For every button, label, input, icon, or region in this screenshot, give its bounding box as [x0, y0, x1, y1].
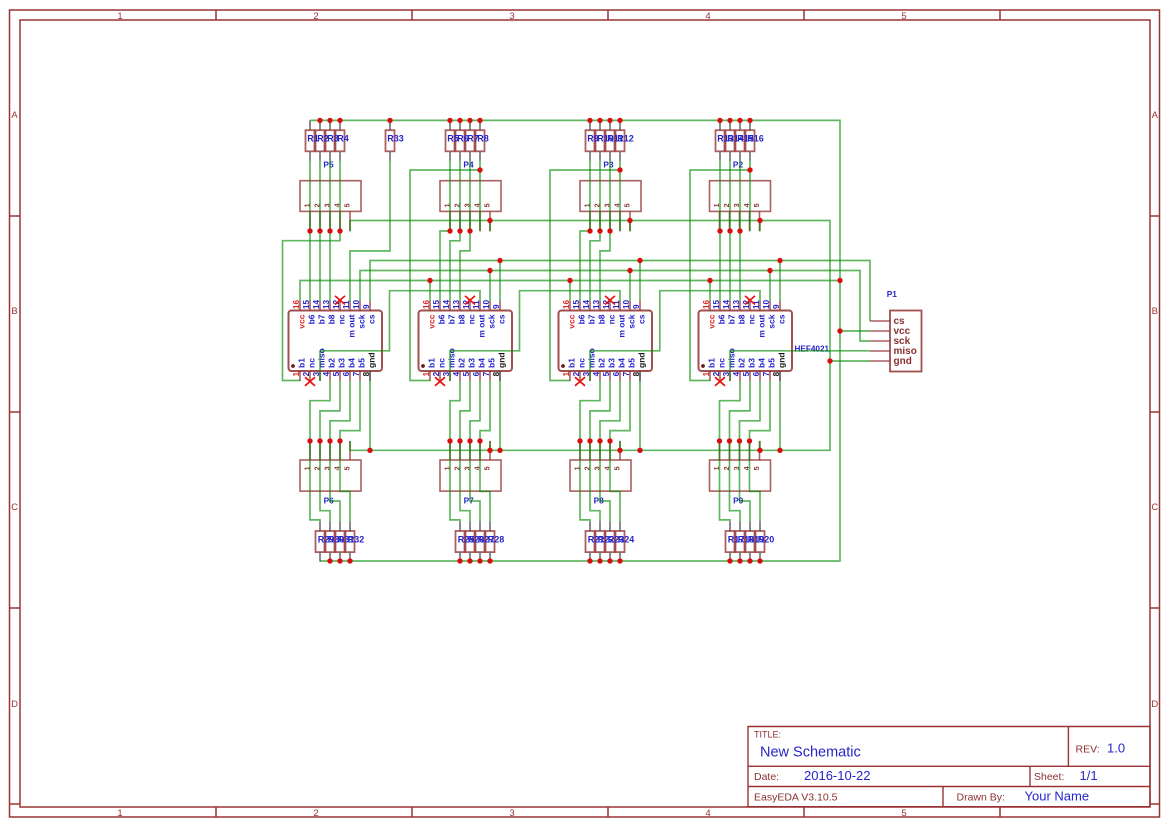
svg-text:b8: b8: [597, 314, 607, 324]
connector P5: [300, 181, 361, 232]
svg-text:D: D: [1151, 699, 1158, 710]
svg-text:11: 11: [612, 300, 621, 309]
svg-text:R24: R24: [618, 534, 635, 544]
junction at (600,561): [597, 558, 602, 563]
junction at (330,120.4): [327, 118, 332, 123]
junction at (620,561): [617, 558, 622, 563]
svg-text:HEF4021: HEF4021: [795, 344, 830, 353]
junction at (330,231): [327, 228, 332, 233]
svg-text:6: 6: [612, 371, 621, 376]
svg-text:cs: cs: [497, 314, 507, 324]
wire cs: IC3 pin9 drop: [639, 261, 641, 302]
wire gnd: P3 pin5 drop: [629, 221, 631, 232]
svg-text:b1: b1: [297, 358, 307, 368]
svg-text:7: 7: [762, 371, 771, 376]
junction at (340,231): [337, 228, 342, 233]
junction at (480,441): [477, 438, 482, 443]
svg-text:2016-10-22: 2016-10-22: [804, 768, 871, 783]
border ruler letters left: [11, 110, 18, 710]
junction at (640,450.3): [637, 448, 642, 453]
svg-text:R16: R16: [747, 134, 764, 144]
svg-text:6: 6: [342, 371, 351, 376]
wire ch2: P4 pin4 junction to U2 pin1 (b1): [410, 170, 480, 381]
svg-text:R8: R8: [477, 134, 489, 144]
wire ch3: U3 pins 4-7 to P8 pins 1-4: [580, 381, 630, 441]
no-connect X on pin 2 of U2: [435, 377, 445, 386]
svg-text:8: 8: [632, 371, 641, 376]
junction at (470,561): [467, 558, 472, 563]
wire cs bus y=260.5: [370, 261, 870, 322]
svg-text:R33: R33: [387, 134, 404, 144]
wire cs: IC4 pin9 drop: [779, 261, 781, 302]
wire cs: IC2 pin9 drop: [499, 261, 501, 302]
svg-text:1: 1: [702, 371, 711, 376]
svg-text:9: 9: [632, 304, 641, 309]
svg-text:P3: P3: [603, 160, 614, 170]
svg-text:5: 5: [901, 11, 906, 22]
svg-text:gnd: gnd: [367, 352, 377, 368]
svg-text:gnd: gnd: [894, 356, 912, 367]
resistor R33: [386, 120, 395, 160]
no-connect X on pin 12 of U3: [605, 296, 615, 305]
svg-text:R28: R28: [488, 534, 505, 544]
wire gnd: IC1 pin8 drop: [369, 381, 371, 450]
junction at (590,561): [587, 558, 592, 563]
svg-text:C: C: [1151, 502, 1158, 513]
no-connect X on pin 12 of U1: [335, 296, 345, 305]
junction at (739.5,441): [737, 438, 742, 443]
junction at (780,450.3): [777, 448, 782, 453]
junction at (480,170): [477, 167, 482, 172]
junction at (320,120.4): [317, 118, 322, 123]
resistor R24: [616, 521, 625, 562]
junction at (340,441): [337, 438, 342, 443]
resistor R9: [586, 120, 595, 160]
svg-text:cs: cs: [637, 314, 647, 324]
connector P4: [440, 181, 501, 232]
resistor R18: [736, 521, 745, 562]
svg-text:b2: b2: [597, 358, 607, 368]
svg-text:9: 9: [492, 304, 501, 309]
wire miso: U4 pin3 to P1 miso: [730, 351, 870, 381]
svg-text:b8: b8: [737, 314, 747, 324]
junction at (610,561): [607, 558, 612, 563]
wire ch3: P8 pins through to bottom resistors: [580, 441, 620, 521]
svg-text:1/1: 1/1: [1080, 768, 1098, 783]
svg-text:5: 5: [602, 371, 611, 376]
svg-text:nc: nc: [437, 358, 447, 368]
svg-text:5: 5: [622, 203, 631, 207]
junction at (750,170): [747, 167, 752, 172]
wire gnd: P4 pin5 drop: [489, 221, 491, 232]
junction at (730,120.4): [727, 118, 732, 123]
svg-text:TITLE:: TITLE:: [754, 730, 781, 740]
svg-text:cs: cs: [777, 314, 787, 324]
resistor R17: [726, 521, 735, 562]
svg-text:4: 4: [452, 371, 461, 376]
no-connect X on pin 12 of U4: [745, 296, 755, 305]
svg-text:9: 9: [772, 304, 781, 309]
svg-text:gnd: gnd: [777, 352, 787, 368]
svg-text:C: C: [11, 502, 18, 513]
junction at (310,231): [307, 228, 312, 233]
junction at (480,120.4): [477, 118, 482, 123]
junction at (740,120.4): [737, 118, 742, 123]
junction at (390,120.4): [387, 118, 392, 123]
junction at (740,561): [737, 558, 742, 563]
wire gnd: bottom gnd bus y=450.3: [350, 441, 780, 450]
svg-text:New Schematic: New Schematic: [760, 745, 861, 761]
junction at (370,450.3): [367, 448, 372, 453]
svg-text:1: 1: [117, 808, 122, 819]
junction at (780,260.5): [777, 258, 782, 263]
svg-text:6: 6: [752, 371, 761, 376]
svg-text:4: 4: [592, 371, 601, 376]
junction at (580,441): [577, 438, 582, 443]
svg-text:2: 2: [313, 808, 318, 819]
junction at (320,441): [317, 438, 322, 443]
svg-text:b5: b5: [627, 358, 637, 368]
resistor R15: [736, 120, 745, 160]
svg-text:4: 4: [705, 11, 710, 22]
resistor R28: [486, 521, 495, 562]
junction at (460,120.4): [457, 118, 462, 123]
junction at (470,441): [467, 438, 472, 443]
resistor R10: [596, 120, 605, 160]
junction at (590,441): [587, 438, 592, 443]
junction at (840,331): [837, 328, 842, 333]
resistor R19: [746, 521, 755, 562]
wire gnd: branch to P1 gnd: [830, 360, 870, 362]
resistor R14: [726, 120, 735, 160]
svg-text:EasyEDA V3.10.5: EasyEDA V3.10.5: [754, 792, 838, 804]
junction at (570,280.5): [567, 278, 572, 283]
wire ch1: P5 pins 1-3 to U1 pins 15,14,13: [310, 231, 330, 301]
svg-text:b2: b2: [737, 358, 747, 368]
title block frame: [748, 727, 1150, 807]
svg-text:b1: b1: [567, 358, 577, 368]
svg-text:m out: m out: [617, 314, 627, 337]
svg-text:P4: P4: [463, 160, 474, 170]
svg-text:b5: b5: [487, 358, 497, 368]
junction at (719.5,441): [717, 438, 722, 443]
svg-text:1: 1: [117, 11, 122, 22]
junction at (500,260.5): [497, 258, 502, 263]
svg-text:b3: b3: [747, 358, 757, 368]
no-connect X on pin 12 of U2: [465, 296, 475, 305]
svg-text:A: A: [1152, 110, 1159, 121]
resistor R25: [456, 521, 465, 562]
wire ch4: P9 pins through to bottom resistors: [720, 441, 761, 521]
svg-text:1: 1: [292, 371, 301, 376]
IC U2 HEF4021: [419, 301, 513, 381]
junction at (490,450.3): [487, 448, 492, 453]
resistor R29: [316, 521, 325, 562]
wire ch2: P4 pins 1-3 to U2 pins 15,14,13: [440, 231, 470, 301]
wire vcc: IC4 vcc drop: [709, 281, 711, 302]
junction at (460,441): [457, 438, 462, 443]
junction at (760,220.5): [757, 218, 762, 223]
junction at (750,561): [747, 558, 752, 563]
svg-text:b3: b3: [607, 358, 617, 368]
svg-text:3: 3: [509, 808, 514, 819]
IC U3 HEF4021: [559, 301, 653, 381]
junction at (760,561): [757, 558, 762, 563]
svg-text:sck: sck: [627, 314, 637, 328]
resistor R2: [316, 120, 325, 160]
wire ch4: P2 pins 1-3 to U4 pins 15,14,13: [720, 231, 740, 301]
wire ch2: resistors through P4 pins: [450, 161, 480, 231]
svg-text:2: 2: [302, 371, 311, 376]
no-connect X on pin 2 of U4: [715, 377, 725, 386]
wire gnd: P2 pin5 drop: [759, 221, 761, 232]
junction at (620,450.3): [617, 448, 622, 453]
resistor R12: [616, 120, 625, 160]
junction at (640,260.5): [637, 258, 642, 263]
resistor R6: [456, 120, 465, 160]
junction at (460,561): [457, 558, 462, 563]
junction at (310,441): [307, 438, 312, 443]
junction at (590,120.4): [587, 118, 592, 123]
border ruler numbers top: [117, 11, 906, 22]
svg-text:nc: nc: [717, 358, 727, 368]
IC U1 HEF4021: [289, 301, 383, 381]
junction at (770,270.5): [767, 268, 772, 273]
junction at (450,231): [447, 228, 452, 233]
svg-text:REV:: REV:: [1076, 744, 1100, 756]
resistor R31: [336, 521, 345, 562]
junction at (710,280.5): [707, 278, 712, 283]
svg-text:vcc: vcc: [707, 314, 717, 328]
junction at (760,450.3): [757, 448, 762, 453]
connector P8: [570, 441, 631, 491]
svg-text:2: 2: [712, 371, 721, 376]
junction at (470,231): [467, 228, 472, 233]
resistor R13: [716, 120, 725, 160]
svg-text:b3: b3: [337, 358, 347, 368]
svg-text:nc: nc: [307, 358, 317, 368]
svg-text:11: 11: [472, 300, 481, 309]
IC U4 HEF4021: [699, 301, 793, 381]
svg-text:b7: b7: [447, 314, 457, 324]
wire ch2: P7 pins through to bottom resistors: [450, 441, 490, 521]
junction at (750,120.4): [747, 118, 752, 123]
wire gnd: P7 pin5 stub: [489, 441, 491, 450]
svg-text:m out: m out: [477, 314, 487, 337]
svg-text:5: 5: [901, 808, 906, 819]
svg-text:1: 1: [562, 371, 571, 376]
svg-text:R4: R4: [337, 134, 349, 144]
junction at (620,120.4): [617, 118, 622, 123]
junction at (720,120.4): [717, 118, 722, 123]
junction at (590,231): [587, 228, 592, 233]
wire vcc: top resistor bus: [310, 120, 840, 561]
wire ch1: U1 pins 4-7 to P6 pins 1-4: [310, 381, 360, 441]
no-connect X on pin 2 of U1: [305, 377, 315, 386]
junction at (600,441): [597, 438, 602, 443]
svg-text:B: B: [11, 306, 17, 317]
svg-text:b6: b6: [437, 314, 447, 324]
resistor R22: [596, 521, 605, 562]
svg-text:5: 5: [482, 466, 491, 470]
svg-text:cs: cs: [367, 314, 377, 324]
svg-text:4: 4: [732, 371, 741, 376]
svg-text:7: 7: [352, 371, 361, 376]
svg-text:b6: b6: [307, 314, 317, 324]
wire vcc: branch to P1 vcc: [840, 330, 870, 332]
svg-text:P5: P5: [323, 160, 334, 170]
svg-text:b6: b6: [577, 314, 587, 324]
wire sck bus y=270.5: [360, 271, 870, 342]
resistor R20: [756, 521, 765, 562]
connector P7: [440, 441, 501, 491]
svg-text:nc: nc: [577, 358, 587, 368]
junction at (729.5,441): [727, 438, 732, 443]
junction at (749.5,441): [747, 438, 752, 443]
wire R33 to U1 pin11 (m out): [350, 161, 390, 301]
wire vcc: bus to IC vcc pins y=280.5: [300, 281, 840, 302]
wire sck: IC4 pin10 drop: [769, 271, 771, 302]
border ruler numbers bottom: [117, 808, 906, 819]
svg-text:5: 5: [752, 466, 761, 470]
wire ch1: P6 pins through to bottom resistors: [310, 441, 350, 521]
connector P1: [870, 311, 922, 372]
svg-text:vcc: vcc: [297, 314, 307, 328]
resistor R23: [606, 521, 615, 562]
svg-text:2: 2: [572, 371, 581, 376]
svg-text:9: 9: [362, 304, 371, 309]
junction at (720,231): [717, 228, 722, 233]
junction at (340,561): [337, 558, 342, 563]
svg-text:nc: nc: [747, 314, 757, 324]
wire miso: U1 pin3 to U2 pin11: [320, 291, 480, 381]
junction at (610,120.4): [607, 118, 612, 123]
svg-text:b3: b3: [467, 358, 477, 368]
svg-text:R32: R32: [348, 534, 365, 544]
junction at (730,231): [727, 228, 732, 233]
resistor R27: [476, 521, 485, 562]
svg-text:gnd: gnd: [637, 352, 647, 368]
junction at (450,120.4): [447, 118, 452, 123]
svg-text:5: 5: [462, 371, 471, 376]
junction at (840,280.5): [837, 278, 842, 283]
svg-text:P2: P2: [733, 160, 744, 170]
wire ch4: P2 pin4 junction to U4 pin1 (b1): [690, 170, 750, 381]
junction at (620,170): [617, 167, 622, 172]
border ruler letters right: [1151, 110, 1158, 710]
resistor R5: [446, 120, 455, 160]
wire vcc: IC2 vcc drop: [429, 281, 431, 302]
svg-text:nc: nc: [467, 314, 477, 324]
svg-text:m out: m out: [757, 314, 767, 337]
svg-text:5: 5: [332, 371, 341, 376]
junction at (480,561): [477, 558, 482, 563]
resistor R1: [306, 120, 315, 160]
wire ch1: P5 pin4 to U1 pin1 (b1): [283, 231, 341, 381]
svg-text:5: 5: [482, 203, 491, 207]
junction at (320,231): [317, 228, 322, 233]
svg-text:B: B: [1152, 306, 1158, 317]
wire sck: IC3 pin10 drop: [629, 271, 631, 302]
resistor R3: [326, 120, 335, 160]
svg-text:4: 4: [705, 808, 710, 819]
junction at (730,561): [727, 558, 732, 563]
wire ch4: resistors through P2 pins: [720, 161, 750, 231]
svg-text:b4: b4: [347, 358, 357, 368]
connector P9: [710, 441, 771, 491]
resistor R26: [466, 521, 475, 562]
svg-text:2: 2: [432, 371, 441, 376]
svg-text:8: 8: [362, 371, 371, 376]
wire miso: U2 pin3 to U3 pin11: [450, 291, 620, 381]
svg-text:Sheet:: Sheet:: [1034, 771, 1064, 783]
svg-text:vcc: vcc: [427, 314, 437, 328]
junction at (330,561): [327, 558, 332, 563]
svg-text:3: 3: [509, 11, 514, 22]
svg-text:Your Name: Your Name: [1025, 789, 1090, 804]
svg-text:b1: b1: [427, 358, 437, 368]
junction at (630,270.5): [627, 268, 632, 273]
svg-text:sck: sck: [487, 314, 497, 328]
wire gnd: IC4 pin8 drop: [779, 381, 781, 450]
connector P2: [710, 181, 771, 232]
svg-text:b4: b4: [617, 358, 627, 368]
junction at (830,361): [827, 358, 832, 363]
resistor R7: [466, 120, 475, 160]
svg-text:m out: m out: [347, 314, 357, 337]
wire miso: U3 pin3 to U4 pin11: [590, 291, 760, 381]
svg-text:sck: sck: [357, 314, 367, 328]
svg-text:b7: b7: [727, 314, 737, 324]
svg-text:R12: R12: [617, 134, 634, 144]
connector P3: [580, 181, 641, 232]
svg-text:b1: b1: [707, 358, 717, 368]
svg-text:sck: sck: [767, 314, 777, 328]
resistor R32: [346, 521, 355, 562]
resistor R30: [326, 521, 335, 562]
junction at (330,441): [327, 438, 332, 443]
resistor R11: [606, 120, 615, 160]
wire gnd: IC3 pin8 drop: [639, 381, 641, 450]
svg-text:4: 4: [322, 371, 331, 376]
svg-text:vcc: vcc: [567, 314, 577, 328]
svg-text:8: 8: [492, 371, 501, 376]
junction at (460,231): [457, 228, 462, 233]
svg-text:5: 5: [342, 466, 351, 470]
junction at (500,450.3): [497, 448, 502, 453]
svg-text:b8: b8: [457, 314, 467, 324]
junction at (470,120.4): [467, 118, 472, 123]
svg-text:nc: nc: [607, 314, 617, 324]
wire ch3: P3 pins 1-3 to U3 pins 15,14,13: [580, 231, 610, 301]
junction at (600,231): [597, 228, 602, 233]
junction at (630,220.5): [627, 218, 632, 223]
wire ch3: resistors through P3 pins: [590, 161, 620, 231]
junction at (610,231): [607, 228, 612, 233]
junction at (740,231): [737, 228, 742, 233]
junction at (450,441): [447, 438, 452, 443]
svg-text:b5: b5: [357, 358, 367, 368]
svg-text:5: 5: [612, 466, 621, 470]
svg-text:A: A: [11, 110, 18, 121]
junction at (610,441): [607, 438, 612, 443]
svg-text:D: D: [11, 699, 18, 710]
svg-text:Drawn By:: Drawn By:: [957, 792, 1005, 804]
svg-text:b8: b8: [327, 314, 337, 324]
svg-text:1.0: 1.0: [1107, 741, 1125, 756]
wire ch2: U2 pins 4-7 to P7 pins 1-4: [450, 381, 490, 441]
svg-text:b5: b5: [767, 358, 777, 368]
